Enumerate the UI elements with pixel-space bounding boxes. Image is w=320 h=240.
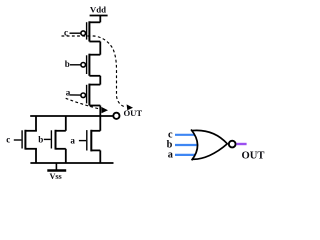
svg-text:a: a [66, 88, 71, 98]
input a lead (pmos) [70, 94, 81, 96]
nmos Mb gate bar [50, 130, 52, 148]
pmos Qc bottom stub [89, 41, 100, 43]
OUT node bubble [113, 113, 119, 119]
pmos Qa gate bubble [81, 93, 86, 98]
pmos Qa gate bar [86, 85, 88, 104]
NOR gate back arc [191, 130, 198, 161]
Vss ground bar [47, 169, 66, 171]
nmos Ma source stub [91, 149, 100, 151]
nmos Mc channel [24, 130, 26, 150]
wire rail to Vss [55, 163, 57, 170]
pmos Qb bottom stub [89, 75, 100, 77]
wire Qc to Qb [99, 42, 101, 55]
input wire c (blue) [175, 134, 197, 136]
nmos Ma drain stub [91, 130, 100, 132]
dashed feed line from input c to OUT [62, 36, 125, 107]
input b lead (pmos) [70, 64, 81, 66]
nmos Mb source stub [56, 148, 66, 150]
arrowhead of dashed c line [127, 104, 133, 110]
nmos Mb channel [55, 130, 57, 150]
pmos Qa bottom stub [89, 105, 100, 107]
nmos Mc source wire [35, 149, 37, 163]
NOR gate body U1 [192, 130, 228, 159]
input wire a (blue) [175, 154, 197, 156]
nmos Mc drain stub [25, 130, 37, 132]
input c lead (pmos) [70, 32, 81, 34]
input wire b (blue) [175, 144, 198, 146]
wire Vdd to PMOS c [99, 16, 101, 23]
nmos Mc source stub [25, 148, 37, 150]
NOR output bubble [229, 141, 236, 148]
nmos Ma source wire [99, 150, 101, 163]
pmos Qb top stub [89, 54, 100, 56]
output rail (nmos top rail) [30, 115, 112, 117]
svg-text:Vss: Vss [49, 172, 61, 181]
svg-text:Vdd: Vdd [90, 4, 106, 14]
input c lead (nmos) [14, 139, 22, 141]
pmos Qa channel [88, 84, 90, 106]
pmos Qb channel [88, 54, 90, 76]
pmos Qb gate bubble [81, 63, 86, 68]
nmos Mc drain wire [35, 116, 37, 131]
arrowhead of dashed a line [101, 107, 108, 113]
Vdd power rail [90, 15, 108, 17]
pmos Qc top stub [89, 21, 100, 23]
pmos Qc gate bubble [81, 31, 86, 36]
nmos bottom rail [30, 162, 113, 164]
NOR output wire (purple) [236, 143, 246, 145]
nmos Ma gate bar [86, 130, 88, 150]
svg-text:OUT: OUT [123, 108, 142, 118]
input b lead (nmos) [44, 138, 51, 140]
wire Qb to Qa [99, 76, 101, 85]
dashed feed line from input a to OUT [66, 98, 101, 109]
pmos Qc gate bar [86, 22, 88, 39]
nmos Mb drain stub [56, 130, 66, 132]
svg-text:a: a [168, 150, 173, 161]
pmos Qc channel [88, 21, 90, 41]
svg-text:OUT: OUT [242, 151, 265, 162]
wire Qa down through output node to nmos Ma drain [99, 106, 101, 131]
pmos Qa top stub [89, 84, 100, 86]
svg-text:a: a [70, 135, 75, 145]
svg-text:b: b [65, 59, 70, 69]
pmos Qb gate bar [86, 55, 88, 74]
nmos Ma channel [90, 130, 92, 152]
input a lead (nmos) [79, 140, 86, 142]
nmos Mb drain wire [65, 116, 67, 131]
nmos Mb source wire [65, 149, 67, 163]
svg-text:c: c [6, 135, 10, 145]
svg-text:b: b [38, 134, 43, 144]
nmos Mc gate bar [21, 130, 23, 148]
